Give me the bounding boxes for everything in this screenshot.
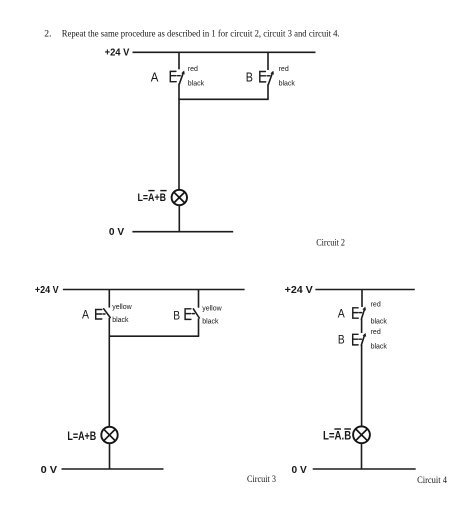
svg-text:L=A+B: L=A+B — [67, 429, 96, 443]
svg-text:black: black — [188, 80, 205, 87]
0V label (circuit 2) — [109, 227, 124, 238]
svg-text:black: black — [112, 317, 129, 324]
label red (switch B, circuit 4) — [371, 329, 381, 336]
label black (switch A, circuit 3) — [112, 317, 129, 324]
label yellow (switch B, circuit 3) — [202, 305, 222, 312]
wire between switch A and switch B (circuit 4) — [361, 319, 363, 333]
main stem wire to lamp (circuit 2) — [178, 99, 180, 190]
label B (circuit 3) — [173, 310, 180, 322]
label black (switch B, circuit 4) — [371, 344, 388, 351]
wire lamp to 0V rail (circuit 4) — [361, 443, 363, 469]
wire drop to switch B (circuit 3) — [198, 290, 200, 308]
caption Circuit 3 — [247, 474, 276, 485]
lamp symbol (circuit 3) — [101, 427, 117, 443]
svg-text:red: red — [371, 301, 381, 308]
svg-text:+24 V: +24 V — [35, 285, 59, 296]
lamp label L=A-bar+B-bar (circuit 2) — [138, 191, 167, 204]
wire lamp to 0V rail (circuit 3) — [109, 443, 111, 469]
svg-text:red: red — [371, 329, 381, 336]
svg-text:+24 V: +24 V — [285, 285, 313, 296]
svg-text:black: black — [371, 344, 388, 351]
wire below switch B (circuit 3) — [198, 319, 200, 337]
switch B blade with arrow (circuit 2) — [268, 71, 274, 85]
svg-text:B: B — [246, 70, 253, 84]
label A (circuit 3) — [82, 310, 89, 322]
svg-text:0 V: 0 V — [41, 465, 58, 476]
lamp symbol (circuit 2) — [172, 190, 187, 205]
svg-text:black: black — [279, 80, 296, 87]
svg-text:B: B — [173, 310, 180, 322]
svg-text:Circuit 3: Circuit 3 — [247, 474, 276, 485]
svg-text:+24 V: +24 V — [105, 48, 130, 59]
label B (circuit 2) — [246, 70, 253, 84]
svg-text:red: red — [279, 66, 289, 73]
wire drop to switch B (circuit 2) — [267, 52, 269, 70]
label yellow (switch A, circuit 3) — [112, 304, 132, 311]
svg-text:B: B — [338, 335, 345, 347]
label red (switch A, circuit 2) — [188, 66, 198, 73]
switch A blade (circuit 3) — [104, 309, 111, 318]
joining wire between branches (circuit 2) — [178, 98, 268, 100]
label B (circuit 4) — [338, 335, 345, 347]
0V label (circuit 3) — [41, 465, 58, 476]
joining wire between branches (circuit 3) — [109, 335, 200, 337]
switch A E-symbol (circuit 3) — [96, 310, 105, 320]
+24V label (circuit 3) — [35, 285, 59, 296]
0V rail wire (circuit 2) — [132, 231, 233, 233]
0V rail wire (circuit 4) — [313, 468, 416, 470]
+24V label (circuit 4) — [285, 285, 313, 296]
svg-text:Circuit 2: Circuit 2 — [316, 238, 345, 249]
switch B blade (circuit 3) — [193, 309, 199, 318]
switch A blade with arrow (circuit 4) — [361, 307, 366, 320]
instruction text item number — [44, 29, 51, 40]
lamp label L=A-bar.B-bar (circuit 4) — [323, 429, 351, 443]
switch B E-symbol (circuit 3) — [185, 309, 194, 320]
switch B blade with arrow (circuit 4) — [361, 333, 366, 345]
wire drop to switch A (circuit 2) — [178, 52, 180, 69]
svg-text:L=A+B: L=A+B — [138, 192, 167, 204]
label black (switch B, circuit 2) — [279, 80, 296, 87]
wire below switch A (circuit 2) — [178, 84, 180, 100]
0V rail wire (circuit 3) — [62, 468, 164, 470]
0V label (circuit 4) — [292, 465, 307, 476]
+24V rail wire (circuit 3) — [63, 289, 245, 291]
switch A E-symbol (circuit 4) — [353, 308, 362, 318]
svg-text:Repeat the same procedure as d: Repeat the same procedure as described i… — [62, 29, 340, 40]
svg-text:A: A — [82, 310, 89, 322]
svg-text:yellow: yellow — [112, 304, 132, 311]
svg-text:black: black — [202, 319, 219, 326]
main stem wire to lamp (circuit 4) — [361, 345, 363, 427]
lamp symbol (circuit 4) — [353, 426, 370, 443]
switch B E-symbol (circuit 2) — [260, 72, 270, 82]
instruction text — [62, 29, 340, 40]
label black (switch A, circuit 4) — [371, 318, 388, 325]
svg-text:red: red — [188, 66, 198, 73]
label red (switch A, circuit 4) — [371, 301, 381, 308]
+24V rail wire (circuit 4) — [315, 289, 414, 291]
svg-text:Circuit 4: Circuit 4 — [417, 475, 447, 486]
wire below switch A (circuit 3) — [108, 318, 110, 336]
svg-text:A: A — [151, 71, 159, 85]
label black (switch A, circuit 2) — [188, 80, 205, 87]
switch B E-symbol (circuit 4) — [353, 334, 362, 345]
wire lamp to 0V rail (circuit 2) — [178, 205, 180, 232]
label A (circuit 4) — [338, 308, 345, 320]
caption Circuit 2 — [316, 238, 345, 249]
svg-text:L=A.B: L=A.B — [323, 431, 351, 443]
switch A E-symbol (circuit 2) — [170, 71, 180, 81]
label black (switch B, circuit 3) — [202, 319, 219, 326]
lamp label L=A+B (circuit 3) — [67, 429, 96, 443]
svg-text:0 V: 0 V — [292, 465, 307, 476]
+24V label (circuit 2) — [105, 48, 130, 59]
main stem wire to lamp (circuit 3) — [108, 336, 110, 427]
wire below switch B (circuit 2) — [267, 84, 269, 99]
svg-text:A: A — [338, 308, 345, 320]
svg-text:black: black — [371, 318, 388, 325]
switch A blade with arrow (circuit 2) — [179, 71, 184, 84]
svg-text:2.: 2. — [44, 29, 51, 40]
+24V rail wire (circuit 2) — [133, 51, 316, 53]
caption Circuit 4 — [417, 475, 447, 486]
svg-text:yellow: yellow — [202, 305, 222, 312]
label red (switch B, circuit 2) — [279, 66, 289, 73]
wire drop to switch A (circuit 3) — [108, 290, 110, 308]
wire drop to switch A (circuit 4) — [361, 290, 363, 308]
svg-text:0 V: 0 V — [109, 227, 124, 238]
label A (circuit 2) — [151, 71, 159, 85]
